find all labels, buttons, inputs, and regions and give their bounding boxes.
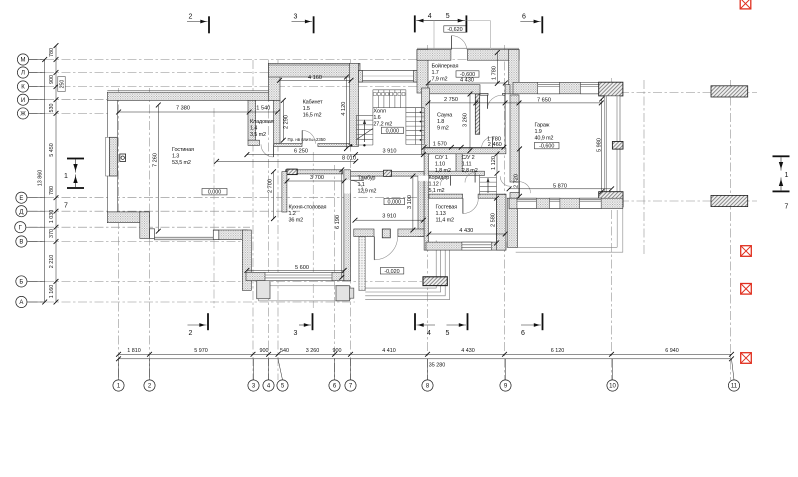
hall north window [359,71,418,83]
svg-text:1.13: 1.13 [436,211,446,217]
wall office east [350,63,359,146]
svg-text:10: 10 [609,384,616,390]
garage north window 2 [580,82,600,94]
svg-text:2 580: 2 580 [491,213,497,227]
dim line 6250/3910 [245,152,426,157]
level box porch -0,020 [380,268,404,275]
level box garage -0,600 [535,142,560,149]
svg-text:-0,020: -0,020 [384,269,399,275]
svg-text:А: А [19,300,23,306]
svg-text:13 860: 13 860 [38,170,44,187]
svg-text:1.12: 1.12 [429,182,439,188]
svg-text:3: 3 [294,330,298,337]
svg-text:5 450: 5 450 [49,143,55,157]
axis bubble 2 [144,359,155,391]
svg-text:900: 900 [333,348,342,354]
axis bubble 7 [345,359,356,391]
door wc1 [440,176,450,186]
wall storage bottom return [248,140,260,145]
porch left band [359,237,365,291]
garage south window 3 [580,198,602,208]
svg-text:5 600: 5 600 [295,265,309,271]
red square 3 [741,284,752,295]
room label Gostinaya [172,147,194,166]
dim line 7380/1540 [116,110,280,115]
svg-text:3 700: 3 700 [310,175,324,181]
level box living 0,000 [202,189,227,196]
svg-text:3 910: 3 910 [383,148,397,154]
door storage [261,144,274,157]
svg-text:1.5: 1.5 [303,106,310,112]
door boiler south [488,95,503,109]
axis line 7 [350,60,352,380]
svg-text:1.3: 1.3 [172,154,179,160]
axis line 4 [268,60,270,380]
axis bubble Г [15,222,45,233]
svg-text:Бойлерная: Бойлерная [432,63,459,70]
section marker left 7 [64,175,84,210]
dim line vert 7260 [156,103,161,234]
red square 1 [740,0,751,9]
svg-text:6 120: 6 120 [551,348,565,354]
svg-text:4 430: 4 430 [461,348,475,354]
svg-text:2 210: 2 210 [49,255,55,269]
wall corridor south seg2 [478,194,506,198]
axis line right-lower [620,200,757,202]
svg-text:0,000: 0,000 [386,128,400,134]
wall living SW step vertical [140,212,150,239]
section marker bottom 3 [294,313,314,337]
svg-text:2: 2 [189,330,193,337]
door tambour-kitchen [351,180,364,193]
svg-text:2 700: 2 700 [268,179,274,193]
tambour door pier [382,229,390,238]
axis line V [29,241,247,243]
svg-text:Ж: Ж [20,112,26,118]
door guest [463,198,478,213]
axis bubble А [16,296,45,307]
svg-text:4 120: 4 120 [341,102,347,116]
axis line K [29,86,431,88]
dim line 8010 [214,159,358,164]
wall kitchen west partition [282,172,287,212]
terrace end post B [213,230,219,239]
svg-text:7: 7 [64,203,68,210]
wall kitchen SW horizontal [213,230,247,240]
garage south window 2 [550,198,560,208]
corridor west door opening [418,176,428,181]
svg-text:С/У 2: С/У 2 [462,155,475,161]
wall garage west [510,95,519,182]
wall storage partition [248,100,256,140]
kitchen east door opening [344,180,350,193]
axis bubble М [17,54,44,65]
hall east face line [504,93,506,148]
stair right flight treads [406,108,425,145]
svg-text:6: 6 [522,14,526,21]
svg-text:6: 6 [521,330,525,337]
axis line 11 [730,80,732,380]
dim line vert 6190 [339,167,344,279]
wall office south seg1 [274,144,302,147]
svg-text:М: М [21,58,26,64]
section marker left 1 [64,158,84,180]
axis line 10 [611,78,613,380]
svg-text:780: 780 [49,48,55,57]
section marker bottom 6 [521,313,543,337]
svg-text:Л: Л [21,71,25,77]
axis bubble 5 [277,359,288,391]
room label Garazh [535,123,554,142]
svg-text:4: 4 [427,330,431,337]
axis line 1 [118,88,120,380]
room label Sauna [437,113,453,132]
wall tambour south seg2 [398,229,424,237]
axis bubble 3 [248,359,259,391]
stair newel dots [350,144,352,146]
svg-text:1,8 m2: 1,8 m2 [435,168,451,174]
wall kitchen south [246,272,344,280]
svg-text:16,5 m2: 16,5 m2 [303,113,322,119]
svg-text:6 190: 6 190 [335,215,341,229]
garage east window band [605,96,620,192]
axis bubble 6 [329,359,340,391]
wall boiler south thin seg [480,93,488,95]
wall corridor west [424,154,428,250]
south terrace outline [258,286,347,301]
svg-text:3 260: 3 260 [306,348,320,354]
svg-text:250: 250 [60,80,66,89]
room label Kladovaya [250,119,274,138]
dim line vert 4120 [344,75,349,151]
axis line I [29,99,113,101]
svg-text:7 650: 7 650 [537,98,551,104]
dim line 3700 [285,179,347,184]
svg-text:5 980: 5 980 [597,138,603,152]
terrace end post A [150,229,155,239]
svg-text:С/У 1: С/У 1 [435,155,448,161]
dim line vert 3260 [468,92,473,153]
wall boiler north outer line [417,47,519,49]
wall terrace west return [507,198,517,247]
axis bubble 9 [500,359,511,391]
svg-text:Кладовая: Кладовая [250,119,274,125]
svg-text:2,8 m2: 2,8 m2 [462,168,478,174]
dim line wc 1570/2460 [422,145,507,150]
door sauna [482,137,493,148]
east terrace south edge [516,209,623,253]
svg-text:1 160: 1 160 [49,285,55,299]
svg-text:11: 11 [731,384,738,390]
svg-text:7 380: 7 380 [176,105,190,111]
svg-text:6 940: 6 940 [665,348,679,354]
wall kitchen east [344,170,351,281]
svg-text:780: 780 [49,186,55,195]
room label Kabinet [303,100,323,119]
wall sauna south / wc north [424,148,506,154]
axis line 8 [427,45,429,380]
svg-text:2 720: 2 720 [514,174,520,188]
room label Kuhnya [289,205,327,224]
dim line vert 2700 [271,169,276,221]
wall hall-sauna divider [422,88,430,154]
living west window block [109,137,117,176]
wall tambour east [418,172,424,237]
section marker bottom 4 [414,313,435,337]
svg-text:900: 900 [260,348,269,354]
svg-text:Е: Е [19,196,23,202]
axis bubble Л [17,67,44,78]
tambour top pier [384,170,392,176]
svg-text:7 260: 7 260 [153,153,159,167]
right pier upper [711,86,748,97]
door boiler north [452,36,467,50]
kitchen vent block [287,169,297,175]
svg-text:В: В [19,240,23,246]
svg-text:И: И [21,98,25,104]
svg-text:-0,620: -0,620 [447,27,462,33]
wall storage east / office west lower [274,100,280,143]
svg-text:2 460: 2 460 [488,142,502,148]
svg-text:36 m2: 36 m2 [289,218,304,224]
wall living north outer line [107,90,274,92]
svg-text:Сауна: Сауна [437,113,453,119]
axis line garage-east [643,80,645,255]
door garage side [519,182,531,194]
left chain overall 13860 [42,57,47,304]
svg-text:1 570: 1 570 [433,142,447,148]
room label Koridor [429,175,450,194]
svg-text:1.1: 1.1 [358,182,365,188]
room label Holl [373,108,392,127]
dim line vert 3100 [411,174,416,233]
guest south window [462,242,491,250]
red square 2 [741,246,752,257]
svg-text:4: 4 [428,13,432,20]
axis bubble 10 [607,359,618,391]
svg-text:1 120: 1 120 [491,156,497,170]
level box hall 0,000 [381,127,403,134]
svg-text:5: 5 [446,13,450,20]
axis line G [29,226,251,228]
wall wc south [428,171,485,175]
svg-text:0,000: 0,000 [208,190,222,196]
stair corridor small flight [480,175,497,196]
dim line vert 5980 [599,97,604,195]
axis bubble 8 [422,359,433,391]
svg-text:Гостевая: Гостевая [436,205,458,211]
axis line 3 [252,60,254,380]
red square 4 [741,353,752,364]
wall boiler south thin seg2 [503,93,506,95]
dim line vert 1120 [495,151,500,175]
axis bubble К [17,81,44,92]
wall living SW step horizontal [107,212,149,223]
wall boiler south seg2 [505,85,510,94]
room label Gostevaya [436,205,458,224]
svg-text:1: 1 [785,172,789,179]
dim line 2750/7650 chain [426,101,604,106]
svg-text:Коридор: Коридор [429,175,450,181]
section line 5 drop [490,21,492,49]
garage SE corner pier [599,192,623,207]
svg-text:6 250: 6 250 [294,148,308,154]
door office [302,130,315,143]
wall sauna east dark [475,94,479,134]
dim line vert 2720 [517,147,522,199]
section marker right 1 [773,155,790,179]
wall kitchen SW vertical [242,230,251,290]
wall boiler west [417,50,428,94]
svg-text:5 970: 5 970 [194,348,208,354]
svg-text:3 100: 3 100 [407,195,413,209]
section marker right 7 [773,178,790,211]
wall office north inner top line [269,64,361,66]
svg-text:1.11: 1.11 [462,162,472,168]
svg-text:Холл: Холл [373,108,385,114]
wall tambour north [344,172,424,176]
svg-text:1 030: 1 030 [49,210,55,224]
svg-text:1: 1 [64,173,68,180]
wall wc partition [456,154,462,173]
axis line B [29,280,431,282]
svg-text:-0,600: -0,600 [539,144,554,150]
section marker bottom 2 [188,313,209,337]
wall boiler north seg2 [467,50,519,61]
left chain inner [54,43,59,304]
svg-text:3 260: 3 260 [463,113,469,127]
svg-text:1.9: 1.9 [535,129,542,135]
axis line Zh [29,112,113,114]
axis bubble В [16,236,45,247]
axis bubble Е [16,192,45,203]
door tambour entry [374,237,397,260]
svg-text:53,5 m2: 53,5 m2 [172,160,191,166]
svg-text:8 010: 8 010 [342,155,356,161]
wall living north [107,92,274,100]
wall office west upper [269,63,281,100]
svg-text:40,9 m2: 40,9 m2 [535,136,554,142]
svg-text:530: 530 [49,104,55,113]
svg-text:3: 3 [294,14,298,21]
axis line 6 [334,165,336,380]
room label WC2 [462,155,478,174]
axis line M [29,59,520,61]
porch column A [257,281,270,299]
level box top -0,620 [444,26,467,33]
section marker top 5 [445,13,467,32]
stair left flight treads [357,108,373,145]
axis bubble И [17,94,44,105]
svg-text:11,4 m2: 11,4 m2 [436,218,455,224]
svg-text:4 430: 4 430 [460,78,474,84]
wall kitchen north thin [286,170,343,174]
section marker top 6 [520,14,543,34]
living wall column block [120,154,126,161]
level box boiler -0,600 [456,71,479,78]
svg-text:900: 900 [49,75,55,84]
svg-text:Кабинет: Кабинет [303,100,323,106]
dim line office 4160 [277,78,353,83]
svg-text:Б: Б [19,280,23,286]
svg-text:370: 370 [49,229,55,238]
svg-text:Тамбур: Тамбур [358,176,376,182]
wall garage west lower [510,193,519,199]
axis bubble 1 [113,359,124,391]
door corridor-garage [500,176,510,186]
svg-text:4 410: 4 410 [382,348,396,354]
svg-text:1.6: 1.6 [373,115,380,121]
axis line right-upper [620,92,757,94]
wall tambour south seg1 [354,229,374,237]
svg-text:1.10: 1.10 [435,162,445,168]
wall boiler south seg1 [428,85,480,94]
wall guest east [496,194,506,250]
porch step block [423,277,447,286]
wall boiler east [509,50,519,94]
garage north window 1 [538,82,560,94]
axis line L [29,72,271,74]
svg-text:1.2: 1.2 [289,211,296,217]
svg-text:0,000: 0,000 [388,200,402,206]
kitchen south window [265,272,332,280]
axis bubble 11 [728,359,739,391]
dim line vert 2290 [281,98,286,143]
svg-text:К: К [21,85,25,91]
dim line garage 5870 [507,186,614,191]
bottom chain overall [116,356,734,361]
section marker top 4 [414,13,445,32]
section line 2-2 [213,108,215,308]
svg-text:2 290: 2 290 [284,115,290,129]
svg-text:Пр. нв плиты=2350: Пр. нв плиты=2350 [288,137,327,142]
wall office south seg2 [318,144,350,147]
section marker top 3 [292,14,315,34]
dim line boiler 4430 [426,81,508,86]
porch entrance steps [365,241,449,300]
right pier lower [711,195,748,206]
stair arrow [363,120,366,143]
axis bubble Ж [17,108,44,119]
axis line D [29,210,301,212]
svg-text:Д: Д [19,209,23,215]
axis bubble Д [16,206,45,217]
wall guest south [426,242,506,250]
living west window sill [106,137,110,176]
door wc2 [465,172,475,182]
svg-text:1.7: 1.7 [432,70,439,76]
axis bubble Б [16,276,45,287]
left chain 250 box [58,77,66,92]
wall living west (double line) [108,100,118,211]
section line 3-3 [312,152,314,308]
porch column B [336,286,350,301]
svg-text:5 870: 5 870 [553,183,567,189]
svg-text:27,2 m2: 27,2 m2 [373,122,392,128]
dim line vert 1780 boiler [495,50,500,86]
svg-text:1 810: 1 810 [127,348,141,354]
dim line vert 2580 [494,196,499,246]
bottom chain segments [116,352,734,357]
garage south window 1 [517,198,536,208]
svg-text:35 280: 35 280 [429,363,446,369]
svg-text:12,9 m2: 12,9 m2 [358,189,377,195]
garage NE corner pier [599,82,623,96]
svg-text:4 430: 4 430 [459,228,473,234]
dim line kitchen 5600 [245,268,347,273]
room label Tambur [358,176,377,195]
garage east mid pier [612,142,623,150]
